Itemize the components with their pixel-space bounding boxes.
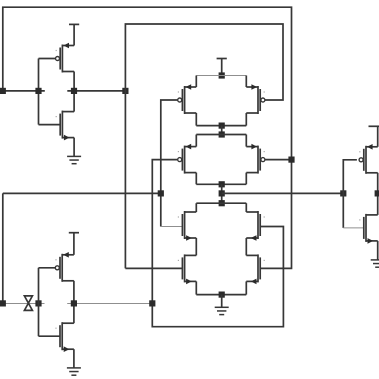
vdd symbol (U3) (369, 126, 379, 147)
wire: output column (221, 184, 223, 203)
wire: gate output to right inverter (222, 192, 344, 194)
nmos N3 (right stack top) (246, 211, 265, 241)
wire: U2 gate riser (39, 268, 61, 336)
wire: M8 gate to net A riser (265, 159, 291, 161)
nmos N4 (right stack bottom) (246, 254, 265, 284)
ground (U2) (67, 349, 81, 375)
ground (central) (215, 295, 229, 315)
pmos M6 (top pair right) (246, 84, 265, 114)
wire: U2 output (thin) (67, 303, 152, 305)
wire: U3 drains vertical (377, 173, 379, 215)
pmos M3 (inverter U2 pull-up) (55, 252, 74, 282)
vdd symbol (U2) (69, 233, 79, 255)
nmos N1 (left stack top) (178, 211, 197, 241)
nmos N2 (left stack bottom) (178, 254, 197, 284)
pmos M7 (mid pair left) (178, 144, 197, 174)
node right-inverter input junction (340, 190, 346, 196)
node mid-pair source junction (219, 131, 225, 137)
wire: series link between pmos pairs (221, 126, 223, 135)
node top-pair drain junction (219, 123, 225, 129)
wire: U2 drains vertical (73, 281, 75, 323)
wire net nB: M7 gate drop to bottom rail up to N3 gate (152, 160, 283, 327)
pmos M9 (inverter U3 pull-up) (359, 144, 378, 174)
nmos M10 (inverter U3 pull-down) (359, 214, 378, 244)
wire: top pair drain bus (196, 113, 246, 126)
node nmos-source junction (219, 292, 225, 298)
node A-in junction (0, 88, 42, 94)
wire: U1 output to box-left rail (67, 90, 125, 92)
wire: nmos bottom bus (196, 281, 246, 294)
wire: U1 drains vertical (73, 72, 75, 112)
node vdd junction (219, 72, 225, 78)
node output-tap junction (219, 190, 225, 196)
node net-B junction (158, 190, 164, 196)
node U3 output junction (375, 190, 379, 196)
pin symbol (inout bowtie) (24, 296, 32, 311)
wire: nmos top bus (196, 203, 246, 212)
node pmos-block output junction (219, 181, 225, 187)
wire net nA: around left/top of box to M6 gate and N2 gate (125, 24, 283, 268)
wire: left stack mid link (195, 238, 197, 255)
wire: input A to inverter U1 gates (3, 59, 60, 125)
node M8-gate junction (288, 157, 294, 163)
wire: top pair source bus (thin) (196, 75, 246, 77)
wire net B: long rail and left drop (3, 193, 161, 303)
ground (U1) (67, 138, 81, 164)
pmos M1 (inverter U1 pull-up) (56, 43, 75, 73)
wire net A: top rail from left edge down right edge to N4 gate (3, 7, 292, 268)
wire: top pair source bends (196, 76, 246, 88)
wire net B: riser to M5 gate and N1 gate (161, 100, 183, 227)
wire: right stack mid link (245, 238, 247, 255)
node B-in junctions (0, 300, 42, 306)
node nmos-block top junction (219, 200, 225, 206)
ground (U3) (371, 241, 379, 267)
wire: input B pin wire (thin) (3, 303, 45, 305)
nmos M2 (inverter U1 pull-down) (56, 111, 75, 141)
nmos M4 (inverter U2 pull-down) (55, 322, 74, 352)
node U1 output junction (71, 88, 129, 94)
vdd symbol (U1) (69, 24, 79, 45)
wire: mid pair source bus (196, 135, 246, 147)
node U2 output junctions (71, 300, 156, 306)
vdd symbol (central) (217, 59, 227, 76)
wire: right inverter gate tee (343, 160, 364, 228)
pmos M5 (top pair left) (178, 84, 197, 114)
wire: mid pair drain bus (196, 173, 246, 185)
pmos M8 (mid pair right) (246, 144, 265, 174)
